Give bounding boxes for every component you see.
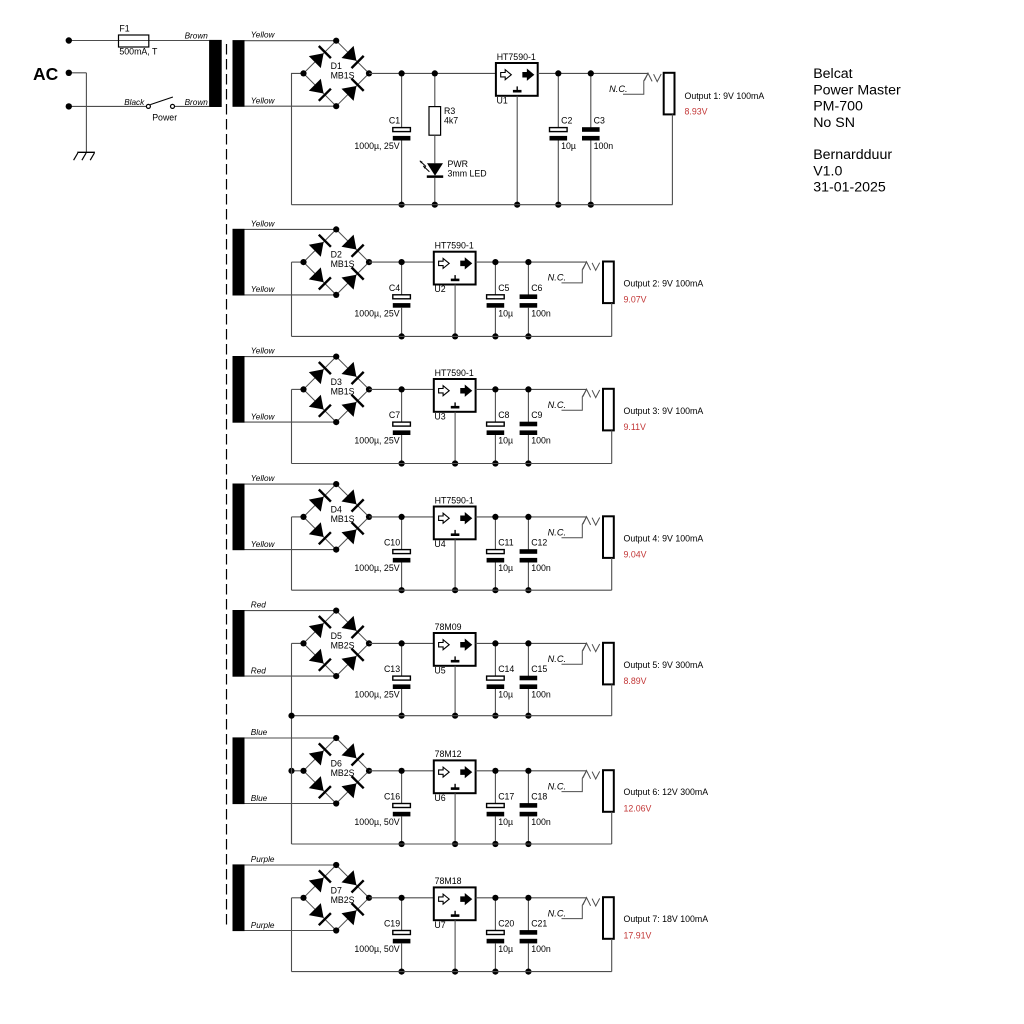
svg-text:D1: D1 [331, 61, 342, 71]
svg-text:C11: C11 [498, 538, 514, 548]
svg-text:78M18: 78M18 [435, 876, 462, 886]
svg-text:Brown: Brown [185, 98, 209, 107]
svg-text:3mm LED: 3mm LED [448, 169, 487, 179]
svg-text:MB1S: MB1S [331, 70, 355, 80]
svg-text:Yellow: Yellow [251, 347, 276, 356]
svg-text:C20: C20 [498, 919, 514, 929]
svg-text:1000µ, 25V: 1000µ, 25V [354, 141, 399, 151]
svg-text:D2: D2 [331, 250, 342, 260]
svg-text:Blue: Blue [251, 794, 268, 803]
svg-text:N.C.: N.C. [548, 908, 566, 918]
svg-text:Output 6: 12V 300mA: Output 6: 12V 300mA [624, 787, 709, 797]
svg-text:N.C.: N.C. [548, 654, 566, 664]
svg-text:U5: U5 [434, 665, 445, 675]
svg-text:D4: D4 [331, 504, 342, 514]
svg-text:C19: C19 [384, 919, 400, 929]
svg-text:U4: U4 [434, 539, 445, 549]
svg-text:C9: C9 [531, 410, 542, 420]
svg-text:C18: C18 [531, 792, 547, 802]
svg-text:N.C.: N.C. [548, 273, 566, 283]
svg-text:U2: U2 [434, 284, 445, 294]
svg-text:U7: U7 [434, 920, 445, 930]
svg-text:1000µ, 50V: 1000µ, 50V [354, 817, 399, 827]
svg-text:10µ: 10µ [498, 817, 513, 827]
svg-text:C2: C2 [561, 116, 572, 126]
svg-text:8.89V: 8.89V [624, 676, 647, 686]
svg-text:MB1S: MB1S [331, 259, 355, 269]
svg-text:100n: 100n [531, 944, 551, 954]
svg-text:Belcat: Belcat [813, 66, 852, 82]
svg-text:1000µ, 50V: 1000µ, 50V [354, 944, 399, 954]
svg-text:100n: 100n [531, 690, 551, 700]
svg-text:Red: Red [251, 601, 266, 610]
svg-text:C21: C21 [531, 919, 547, 929]
svg-text:Yellow: Yellow [251, 540, 276, 549]
svg-text:D6: D6 [331, 758, 342, 768]
svg-text:Bernardduur: Bernardduur [813, 147, 892, 163]
svg-text:C16: C16 [384, 792, 400, 802]
svg-text:10µ: 10µ [561, 141, 576, 151]
svg-text:31-01-2025: 31-01-2025 [813, 180, 886, 196]
svg-text:10µ: 10µ [498, 436, 513, 446]
svg-text:C15: C15 [531, 664, 547, 674]
svg-text:AC: AC [33, 64, 59, 84]
svg-text:Blue: Blue [251, 728, 268, 737]
svg-text:HT7590-1: HT7590-1 [497, 52, 536, 62]
svg-text:C14: C14 [498, 664, 514, 674]
svg-text:8.93V: 8.93V [685, 107, 708, 117]
svg-text:Yellow: Yellow [251, 219, 276, 228]
svg-text:78M12: 78M12 [435, 749, 462, 759]
svg-text:D7: D7 [331, 885, 342, 895]
svg-text:D3: D3 [331, 377, 342, 387]
svg-text:4k7: 4k7 [444, 116, 458, 126]
svg-text:12.06V: 12.06V [624, 803, 652, 813]
svg-text:U6: U6 [434, 793, 445, 803]
svg-text:No SN: No SN [813, 115, 855, 131]
svg-text:MB2S: MB2S [331, 895, 355, 905]
svg-text:Red: Red [251, 667, 266, 676]
svg-text:Black: Black [124, 98, 145, 107]
svg-text:R3: R3 [444, 106, 455, 116]
svg-text:PM-700: PM-700 [813, 99, 863, 115]
svg-text:100n: 100n [531, 308, 551, 318]
svg-text:C17: C17 [498, 792, 514, 802]
svg-text:10µ: 10µ [498, 690, 513, 700]
svg-text:1000µ, 25V: 1000µ, 25V [354, 308, 399, 318]
svg-text:10µ: 10µ [498, 563, 513, 573]
svg-text:F1: F1 [119, 24, 129, 34]
svg-text:MB1S: MB1S [331, 386, 355, 396]
svg-text:MB2S: MB2S [331, 640, 355, 650]
svg-text:C6: C6 [531, 283, 542, 293]
svg-text:9.11V: 9.11V [624, 422, 646, 432]
svg-text:100n: 100n [531, 436, 551, 446]
svg-text:Purple: Purple [251, 855, 275, 864]
svg-text:Power: Power [152, 113, 177, 123]
svg-text:78M09: 78M09 [435, 622, 462, 632]
svg-text:100n: 100n [531, 817, 551, 827]
svg-text:Brown: Brown [185, 32, 209, 41]
svg-text:C3: C3 [594, 116, 605, 126]
svg-text:Yellow: Yellow [251, 474, 276, 483]
svg-text:HT7590-1: HT7590-1 [435, 368, 474, 378]
svg-text:Power Master: Power Master [813, 82, 901, 98]
svg-text:Output 4: 9V 100mA: Output 4: 9V 100mA [624, 533, 704, 543]
svg-text:PWR: PWR [448, 159, 469, 169]
svg-text:HT7590-1: HT7590-1 [435, 241, 474, 251]
svg-text:C10: C10 [384, 538, 400, 548]
svg-text:N.C.: N.C. [548, 781, 566, 791]
svg-text:C4: C4 [389, 283, 400, 293]
svg-text:MB2S: MB2S [331, 768, 355, 778]
svg-text:N.C.: N.C. [609, 84, 627, 94]
svg-text:1000µ, 25V: 1000µ, 25V [354, 563, 399, 573]
svg-text:N.C.: N.C. [548, 528, 566, 538]
svg-text:9.07V: 9.07V [624, 295, 647, 305]
svg-text:1000µ, 25V: 1000µ, 25V [354, 436, 399, 446]
svg-text:17.91V: 17.91V [624, 930, 652, 940]
svg-text:100n: 100n [594, 141, 614, 151]
svg-text:N.C.: N.C. [548, 400, 566, 410]
svg-text:Yellow: Yellow [251, 413, 276, 422]
svg-text:C13: C13 [384, 664, 400, 674]
svg-text:C7: C7 [389, 410, 400, 420]
svg-text:10µ: 10µ [498, 944, 513, 954]
svg-text:Output 2: 9V 100mA: Output 2: 9V 100mA [624, 279, 704, 289]
svg-text:Output 1: 9V 100mA: Output 1: 9V 100mA [685, 91, 765, 101]
svg-text:U3: U3 [434, 411, 445, 421]
svg-text:100n: 100n [531, 563, 551, 573]
svg-text:C12: C12 [531, 538, 547, 548]
svg-text:Output 7: 18V 100mA: Output 7: 18V 100mA [624, 914, 709, 924]
svg-text:C1: C1 [389, 116, 400, 126]
svg-text:HT7590-1: HT7590-1 [435, 495, 474, 505]
svg-text:Yellow: Yellow [251, 31, 276, 40]
svg-text:Yellow: Yellow [251, 97, 276, 106]
svg-text:U1: U1 [497, 95, 508, 105]
svg-text:C8: C8 [498, 410, 509, 420]
svg-text:Purple: Purple [251, 921, 275, 930]
svg-text:10µ: 10µ [498, 308, 513, 318]
svg-text:Output 5: 9V 300mA: Output 5: 9V 300mA [624, 660, 704, 670]
svg-text:Yellow: Yellow [251, 285, 276, 294]
svg-text:C5: C5 [498, 283, 509, 293]
svg-text:Output 3: 9V 100mA: Output 3: 9V 100mA [624, 406, 704, 416]
svg-text:V1.0: V1.0 [813, 163, 842, 179]
svg-text:500mA, T: 500mA, T [119, 47, 158, 57]
svg-text:9.04V: 9.04V [624, 550, 647, 560]
svg-text:D5: D5 [331, 631, 342, 641]
svg-text:MB1S: MB1S [331, 514, 355, 524]
svg-text:1000µ, 25V: 1000µ, 25V [354, 690, 399, 700]
